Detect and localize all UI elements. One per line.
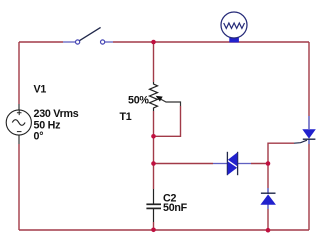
wire top-left horizontal bbox=[19, 41, 63, 43]
lamp X1 bbox=[221, 12, 247, 43]
source V1 bbox=[6, 104, 31, 144]
capacitor C2 bbox=[146, 189, 161, 222]
potentiometer T1 wiper bbox=[156, 96, 181, 106]
wire middle horizontal to diac bbox=[154, 163, 214, 165]
svg-text:230 Vrms: 230 Vrms bbox=[34, 108, 79, 120]
wire wiper loop bbox=[154, 106, 181, 136]
wire middle vertical below capacitor bbox=[153, 222, 155, 230]
thyristor D2 bbox=[294, 116, 316, 144]
junction middle tap bbox=[151, 161, 156, 166]
svg-text:50%: 50% bbox=[128, 94, 149, 106]
junction gate node bbox=[266, 161, 271, 166]
wire diac to node bbox=[251, 163, 268, 165]
wire diode to bottom bbox=[267, 209, 269, 230]
diode D3 bbox=[260, 188, 276, 209]
switch S1 bbox=[63, 27, 113, 44]
svg-text:V1: V1 bbox=[34, 84, 47, 96]
wire left vertical upper bbox=[18, 42, 20, 104]
svg-text:T1: T1 bbox=[120, 111, 132, 123]
wire node to diode bbox=[267, 164, 269, 189]
diac D1 bbox=[213, 152, 251, 175]
svg-text:50nF: 50nF bbox=[163, 202, 188, 214]
junction wiper return bbox=[151, 134, 156, 139]
wire right vertical upper bbox=[308, 42, 310, 116]
svg-text:50 Hz: 50 Hz bbox=[34, 119, 61, 131]
wire left vertical lower bbox=[18, 144, 20, 230]
wire right vertical lower bbox=[308, 144, 310, 230]
svg-text:0°: 0° bbox=[34, 131, 44, 143]
wire middle vertical upper bbox=[153, 42, 155, 82]
wire bottom horizontal bbox=[19, 229, 309, 231]
wire middle vertical mid bbox=[153, 111, 155, 189]
wire top horizontal right of switch bbox=[113, 41, 309, 43]
junction capacitor bottom bbox=[151, 228, 156, 233]
potentiometer T1 zigzag bbox=[150, 82, 158, 111]
wire gate branch bbox=[268, 143, 294, 163]
junction top middle bbox=[151, 40, 156, 45]
junction diode bottom bbox=[266, 228, 271, 233]
